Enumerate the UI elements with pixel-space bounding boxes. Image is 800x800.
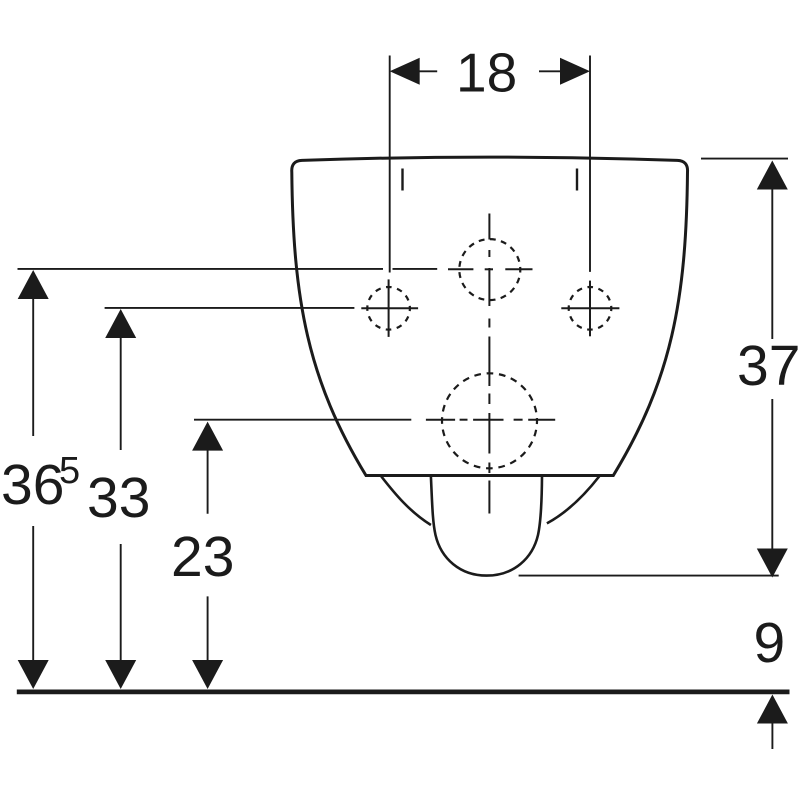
svg-text:9: 9 (754, 611, 786, 675)
svg-text:33: 33 (87, 466, 150, 530)
svg-text:37: 37 (737, 334, 800, 398)
svg-text:5: 5 (59, 450, 80, 492)
svg-text:36: 36 (1, 453, 64, 517)
svg-text:23: 23 (171, 525, 234, 589)
svg-text:18: 18 (456, 42, 517, 104)
